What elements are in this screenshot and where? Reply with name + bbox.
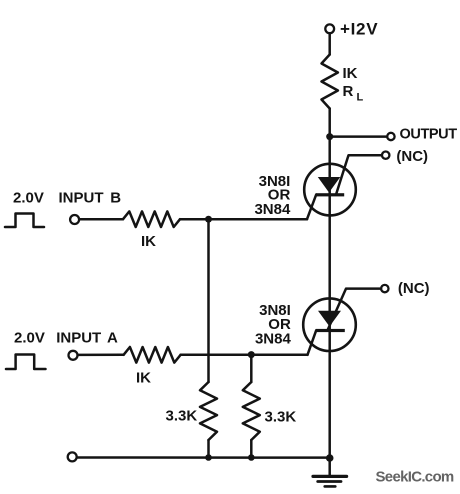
wire input B to resistor [79, 218, 123, 221]
svg-text:3.3K: 3.3K [166, 407, 198, 424]
OUTPUT terminal [387, 133, 394, 140]
wire 3.3K left to bottom rail [207, 440, 210, 458]
transistor Q1 cathode bar [316, 193, 344, 196]
wire main vertical rail [328, 109, 331, 477]
svg-text:INPUT: INPUT [56, 330, 101, 347]
wire node A down to 3.3K [250, 355, 253, 382]
svg-text:IK: IK [141, 233, 156, 250]
svg-text:R: R [343, 83, 354, 100]
resistor 1K input A [124, 347, 181, 363]
junction output node [326, 133, 333, 140]
(NC) terminal upper [382, 152, 389, 159]
junction ground node [326, 454, 334, 462]
transistor Q1 triangle [318, 177, 341, 193]
junction bottom rail right [248, 454, 255, 461]
wire anode-gate Q1 [336, 155, 382, 194]
resistor 3.3K left [200, 382, 217, 440]
transistor Q2 body circle [303, 298, 356, 351]
transistor Q2 cathode bar [316, 329, 345, 332]
wire bottom rail [77, 456, 330, 459]
svg-text:2.0V: 2.0V [13, 190, 44, 207]
resistor 3.3K right [243, 382, 260, 440]
(NC) terminal lower [381, 285, 388, 292]
ground bar 2 [318, 480, 341, 483]
wire input A net to Q2 gate [181, 354, 308, 357]
ground bar 1 [313, 475, 347, 478]
svg-text:A: A [107, 330, 118, 347]
svg-text:IK: IK [136, 370, 151, 387]
pulse symbol input B [5, 214, 44, 228]
svg-text:IK: IK [343, 65, 358, 82]
wire anode-gate Q2 [328, 289, 382, 331]
svg-text:2.0V: 2.0V [14, 330, 45, 347]
wire node B down to 3.3K [207, 219, 210, 382]
wire cathode-gate Q2 diagonal [308, 330, 317, 355]
wire input A to resistor [78, 354, 124, 357]
svg-text:+I2V: +I2V [340, 20, 378, 39]
input A terminal [69, 351, 78, 360]
common return terminal bottom left [68, 452, 77, 461]
junction node B [205, 216, 212, 223]
svg-text:(NC): (NC) [398, 280, 430, 297]
svg-text:B: B [110, 190, 121, 207]
+12V supply terminal [325, 24, 334, 33]
svg-text:SeekIC.com: SeekIC.com [376, 468, 454, 485]
junction bottom rail left [205, 454, 212, 461]
wire output stub [330, 135, 387, 138]
op Q1 body circle [304, 164, 356, 216]
svg-text:INPUT: INPUT [59, 190, 104, 207]
svg-text:L: L [357, 91, 364, 103]
wire +12V to RL [328, 33, 331, 54]
svg-text:(NC): (NC) [396, 148, 428, 165]
svg-text:3.3K: 3.3K [265, 409, 297, 426]
svg-text:3N84: 3N84 [254, 201, 291, 218]
junction node A [248, 351, 255, 358]
resistor 1K input B [123, 211, 180, 227]
wire cathode-gate Q1 diagonal [307, 195, 316, 220]
wire input B net to Q1 gate [180, 218, 307, 221]
svg-text:OUTPUT: OUTPUT [400, 126, 458, 142]
transistor Q2 triangle [318, 311, 341, 327]
resistor RL 1K [322, 55, 338, 109]
svg-text:3N84: 3N84 [255, 331, 292, 348]
ground bar 3 [325, 485, 336, 488]
wire 3.3K right to bottom rail [250, 440, 253, 458]
pulse symbol input A [6, 355, 46, 370]
input B terminal [70, 215, 79, 224]
